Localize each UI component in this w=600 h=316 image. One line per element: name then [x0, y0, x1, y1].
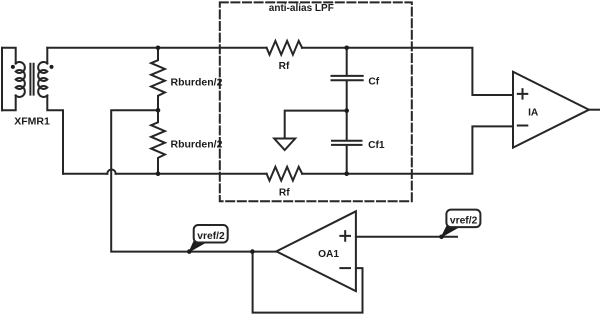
- capacitor Cf1: [332, 141, 362, 145]
- transformer XFMR1 primary phase dot: [11, 65, 15, 69]
- net flag vref/2 (left) box: [194, 225, 228, 243]
- junction node: bottom wire / Cf1: [344, 171, 349, 176]
- junction node: top wire / Cf: [344, 46, 349, 51]
- junction node: Cf / Cf1 / ground: [344, 108, 349, 113]
- wire burden center tap to OA1 output: [111, 110, 276, 251]
- anti-alias LPF dashed box: [220, 2, 412, 201]
- svg-text:anti-alias LPF: anti-alias LPF: [269, 3, 334, 14]
- transformer XFMR1 secondary phase dot: [50, 65, 54, 69]
- svg-text:Rburden/2: Rburden/2: [171, 77, 223, 89]
- transformer XFMR1 primary bottom lead: [2, 96, 16, 111]
- net flag vref/2 (right) attachment dot: [439, 235, 444, 240]
- svg-text:vref/2: vref/2: [197, 231, 225, 242]
- junction node: burden center tap: [156, 108, 161, 113]
- op-amp IA plus symbol: [518, 89, 528, 99]
- op-amp IA minus symbol: [518, 125, 528, 127]
- transformer XFMR1 primary winding: [16, 62, 25, 97]
- svg-text:Rf: Rf: [279, 188, 290, 199]
- transformer XFMR1 secondary winding: [38, 62, 47, 97]
- op-amp OA1 plus symbol: [340, 231, 350, 241]
- op-amp OA1 body: [276, 211, 356, 291]
- svg-text:Rf: Rf: [279, 61, 290, 72]
- net flag vref/2 (right) pointer: [442, 226, 460, 237]
- net flag vref/2 (left) attachment dot: [187, 249, 192, 254]
- net flag vref/2 (left) pointer: [189, 241, 206, 252]
- resistor Rburden/2 (lower) with leads: [151, 110, 165, 174]
- wire OA1 non-inverting input to vref/2: [356, 236, 457, 238]
- transformer XFMR1 primary top lead: [2, 48, 16, 64]
- capacitor Cf1 upper lead: [346, 111, 348, 140]
- resistor Rburden/2 (upper) with leads: [151, 48, 165, 110]
- wire hop over vertical wire: [107, 170, 115, 174]
- ground: [274, 139, 295, 151]
- wire bottom net: secondary bottom toward IA inverting input: [63, 173, 107, 175]
- wire ground tee: [285, 111, 347, 139]
- resistor Rf (bottom): [267, 167, 303, 181]
- op-amp OA1 minus symbol: [340, 267, 350, 269]
- svg-text:vref/2: vref/2: [450, 216, 478, 227]
- junction node: OA1 output / feedback: [250, 249, 255, 254]
- op-amp IA body: [513, 72, 589, 148]
- resistor Rf (top): [267, 41, 303, 55]
- junction node: top wire / Rburden: [156, 46, 161, 51]
- svg-text:IA: IA: [528, 108, 539, 119]
- wire primary left short: [1, 48, 3, 111]
- svg-text:Cf: Cf: [368, 77, 379, 88]
- junction node: bottom wire / Rburden: [156, 171, 161, 176]
- wire top net: secondary top to IA non-inverting input: [47, 47, 266, 49]
- wire top net continues to corner: [302, 48, 512, 95]
- capacitor Cf lower lead: [346, 81, 348, 111]
- svg-text:Rburden/2: Rburden/2: [171, 139, 223, 151]
- wire bottom net continues to Rf (bottom): [116, 173, 267, 175]
- capacitor Cf: [332, 76, 363, 80]
- wire IA output: [589, 109, 600, 111]
- transformer XFMR1 secondary top lead: [46, 48, 48, 64]
- transformer XFMR1 secondary bottom lead: [47, 96, 63, 174]
- svg-text:XFMR1: XFMR1: [14, 116, 50, 128]
- svg-text:OA1: OA1: [318, 249, 339, 260]
- capacitor branch top lead: [346, 48, 348, 75]
- wire OA1 feedback loop: [253, 252, 363, 313]
- svg-text:Cf1: Cf1: [368, 140, 385, 151]
- capacitor Cf1 bottom lead: [346, 146, 348, 174]
- wire bottom net continues to corner: [302, 126, 512, 173]
- transformer XFMR1 core: [30, 64, 33, 95]
- net flag vref/2 (right) box: [446, 210, 480, 228]
